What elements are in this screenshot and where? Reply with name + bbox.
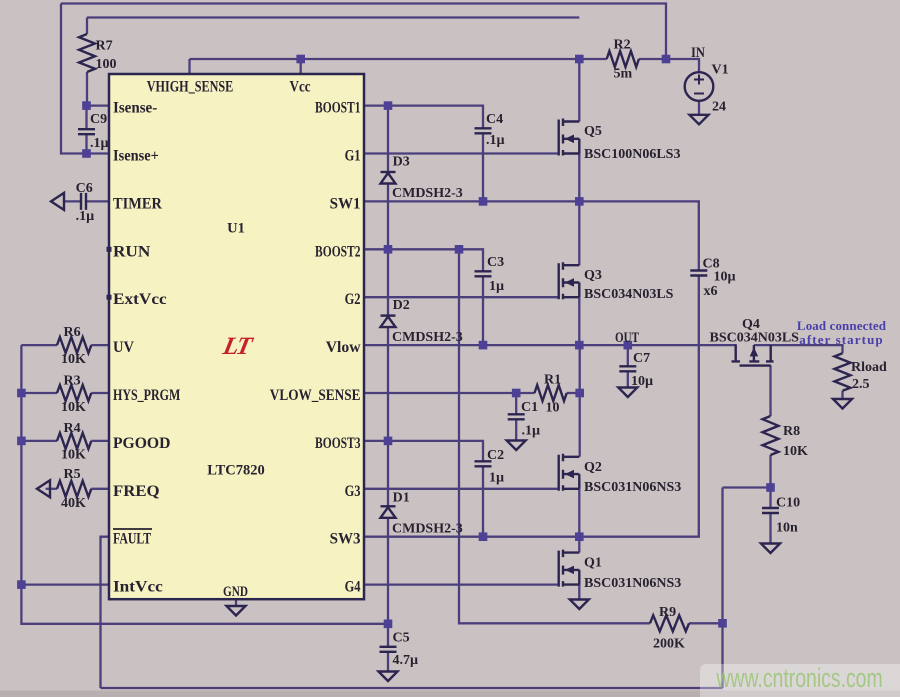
resistor R4 bbox=[57, 433, 91, 449]
wire Vcc rail riser bbox=[87, 16, 579, 18]
capacitor C4 bbox=[475, 128, 492, 133]
capacitor C6 bbox=[81, 193, 86, 210]
node BOOST3 junction bbox=[384, 437, 393, 446]
svg-text:BSC100N06LS3: BSC100N06LS3 bbox=[584, 147, 680, 162]
wire Vcc pin stub bbox=[300, 59, 302, 74]
wire R5 right lead bbox=[91, 488, 109, 490]
wire IN left drop to Isense+ bbox=[61, 4, 87, 154]
svg-text:after startup: after startup bbox=[799, 332, 883, 347]
wire SW1 to C8 bbox=[579, 201, 699, 270]
svg-text:2.5: 2.5 bbox=[852, 377, 870, 392]
svg-text:LTC7820: LTC7820 bbox=[207, 463, 264, 479]
svg-text:x6: x6 bbox=[704, 284, 718, 299]
capacitor C10 bbox=[762, 508, 779, 513]
transistor Q3 bbox=[559, 262, 580, 299]
node C4 SW1 junction bbox=[479, 197, 488, 206]
svg-text:R6: R6 bbox=[64, 325, 81, 340]
capacitor C8 bbox=[690, 271, 707, 276]
transistor Q1 bbox=[559, 550, 580, 587]
svg-text:UV: UV bbox=[113, 339, 134, 357]
wire Q2 drain drop bbox=[579, 345, 581, 457]
wire R9 right lead bbox=[689, 622, 723, 624]
wire left rail bbox=[20, 345, 22, 584]
wire Q2 source to SW3 bbox=[578, 489, 580, 537]
svg-text:G3: G3 bbox=[345, 482, 361, 500]
wire R7 top riser bbox=[86, 18, 88, 35]
wire FAULT drop bbox=[101, 537, 110, 688]
svg-text:C4: C4 bbox=[486, 112, 503, 127]
svg-text:D2: D2 bbox=[393, 298, 410, 313]
svg-text:CMDSH2-3: CMDSH2-3 bbox=[392, 330, 463, 345]
resistor R5 bbox=[57, 481, 91, 497]
svg-text:1µ: 1µ bbox=[489, 471, 504, 486]
wire Q5 source to SW1 bbox=[578, 154, 580, 202]
svg-text:BOOST3: BOOST3 bbox=[315, 435, 360, 452]
ground Rload bbox=[833, 399, 852, 409]
wire BOOST3 bbox=[364, 441, 483, 461]
wire VLOW_SENSE bbox=[364, 392, 516, 394]
wire Isense+ pin bbox=[87, 152, 110, 154]
wire R1 left lead bbox=[516, 392, 534, 394]
wire R4 left lead bbox=[21, 440, 57, 442]
resistor R8 bbox=[763, 416, 779, 455]
wire C10 bottom lead bbox=[769, 513, 771, 544]
node SW1 junction bbox=[575, 197, 584, 206]
wire G3 bbox=[364, 488, 559, 490]
svg-text:200K: 200K bbox=[653, 637, 685, 652]
capacitor C9 bbox=[78, 129, 95, 134]
svg-text:IntVcc: IntVcc bbox=[113, 577, 163, 595]
ground Q1 bbox=[570, 600, 589, 610]
svg-text:Rload: Rload bbox=[851, 360, 887, 375]
wire BOOST2 bbox=[364, 249, 483, 271]
svg-text:FREQ: FREQ bbox=[113, 481, 160, 500]
wire Q4 gate lead bbox=[769, 365, 771, 416]
resistor R7 bbox=[79, 34, 95, 72]
svg-text:Q2: Q2 bbox=[584, 460, 602, 475]
wire C7 bottom lead bbox=[627, 371, 629, 387]
wire Q4 source to Rload bbox=[754, 345, 843, 353]
wire C9 top lead bbox=[85, 106, 87, 130]
resistor R9 bbox=[650, 615, 689, 631]
wire Q3 source to OUT bbox=[578, 297, 580, 345]
wire R4 right lead bbox=[91, 440, 109, 442]
svg-text:IN: IN bbox=[691, 44, 705, 60]
node R3 rail junction bbox=[17, 389, 26, 398]
wire R6 right lead bbox=[91, 344, 109, 346]
svg-text:Q5: Q5 bbox=[584, 124, 602, 139]
svg-text:VLOW_SENSE: VLOW_SENSE bbox=[270, 387, 361, 404]
transistor Q5 bbox=[559, 119, 580, 156]
ground freq arrow bbox=[37, 480, 50, 497]
op-amp U1 LTC7820 IC body bbox=[109, 74, 364, 599]
svg-text:C2: C2 bbox=[487, 448, 504, 463]
wire D1 cathode lead bbox=[387, 441, 389, 506]
ground V1 bbox=[690, 115, 709, 125]
svg-text:BOOST1: BOOST1 bbox=[315, 100, 360, 117]
transistor Q4 bbox=[732, 344, 774, 365]
diode D2 bbox=[381, 314, 396, 316]
svg-text:.1µ: .1µ bbox=[90, 136, 109, 151]
svg-text:BOOST2: BOOST2 bbox=[315, 244, 360, 261]
wire R5 left lead bbox=[46, 488, 57, 490]
wire G4 bbox=[364, 583, 559, 585]
ground C1 bbox=[507, 441, 526, 451]
capacitor C1 bbox=[508, 414, 525, 419]
svg-text:4.7µ: 4.7µ bbox=[393, 653, 419, 668]
svg-text:10K: 10K bbox=[783, 444, 808, 459]
resistor Rload bbox=[835, 353, 851, 391]
wire R7 bottom lead bbox=[86, 72, 88, 106]
svg-text:Isense+: Isense+ bbox=[113, 147, 159, 165]
svg-text:G1: G1 bbox=[345, 147, 361, 165]
svg-text:Vcc: Vcc bbox=[289, 78, 311, 95]
svg-text:R1: R1 bbox=[544, 373, 561, 388]
svg-text:CMDSH2-3: CMDSH2-3 bbox=[392, 522, 463, 537]
wire IntVcc bbox=[21, 583, 109, 585]
node R4 rail junction bbox=[17, 437, 26, 446]
svg-text:.1µ: .1µ bbox=[76, 209, 95, 224]
svg-text:Q1: Q1 bbox=[584, 556, 602, 571]
wire R1 right lead bbox=[567, 392, 580, 394]
wire TIMER lead bbox=[86, 200, 109, 202]
node IN junction bbox=[662, 55, 671, 64]
wire D2 cathode lead bbox=[387, 249, 389, 315]
wire Q1 drain drop bbox=[578, 537, 580, 553]
svg-text:40K: 40K bbox=[61, 496, 86, 511]
svg-text:R3: R3 bbox=[64, 374, 81, 389]
wire C8 bottom to SW3 bbox=[364, 276, 699, 537]
node Vcc junction bbox=[296, 55, 305, 64]
svg-text:1µ: 1µ bbox=[489, 279, 504, 294]
wire BOOST2 to R9 drop bbox=[459, 249, 650, 623]
wire VHIGH_SENSE stub bbox=[188, 59, 190, 74]
svg-text:SW1: SW1 bbox=[330, 195, 361, 213]
wire G2 bbox=[364, 296, 559, 298]
svg-text:SW3: SW3 bbox=[330, 530, 361, 548]
node VLOW_SENSE junction bbox=[512, 389, 521, 398]
wire G1 bbox=[364, 152, 559, 154]
node Isense+ junction bbox=[82, 149, 91, 158]
svg-text:HYS_PRGM: HYS_PRGM bbox=[113, 386, 180, 404]
node R2 left junction bbox=[575, 55, 584, 64]
watermark background bbox=[700, 664, 900, 697]
svg-text:R4: R4 bbox=[64, 421, 81, 436]
wire Isense- pin bbox=[87, 104, 110, 106]
pin ExtVcc mark bbox=[107, 295, 112, 300]
svg-text:V1: V1 bbox=[712, 63, 729, 78]
wire C7 top lead bbox=[627, 345, 629, 366]
wire Rload to ground bbox=[841, 391, 843, 399]
wire D3 cathode lead bbox=[387, 106, 389, 172]
node Isense- junction bbox=[82, 101, 91, 110]
wire C1 top lead bbox=[515, 393, 517, 414]
wire Q5 drain drop bbox=[578, 59, 580, 122]
svg-text:U1: U1 bbox=[227, 221, 245, 237]
wire C2 bottom lead bbox=[482, 466, 484, 536]
svg-text:R2: R2 bbox=[614, 38, 631, 53]
wire IntVcc rail to C5 bbox=[21, 585, 388, 624]
svg-text:.1µ: .1µ bbox=[486, 133, 505, 148]
wire SW1 bbox=[364, 200, 579, 202]
svg-text:C10: C10 bbox=[776, 496, 800, 511]
wire C5 top lead bbox=[387, 624, 389, 647]
wire R3 right lead bbox=[91, 392, 109, 394]
wire IN net top rail bbox=[61, 4, 666, 60]
svg-text:D1: D1 bbox=[393, 491, 410, 506]
node C7 junction bbox=[624, 341, 633, 350]
node R8 C10 junction bbox=[766, 483, 775, 492]
svg-text:PGOOD: PGOOD bbox=[113, 435, 170, 452]
svg-text:R8: R8 bbox=[783, 424, 800, 439]
capacitor C3 bbox=[475, 271, 492, 276]
diode D3 bbox=[381, 171, 396, 173]
transistor Q2 bbox=[559, 454, 580, 491]
wire bottom rail bbox=[101, 687, 723, 689]
svg-text:Load connected: Load connected bbox=[797, 318, 887, 333]
node BOOST2 D junction bbox=[384, 245, 393, 254]
svg-text:.1µ: .1µ bbox=[522, 424, 541, 439]
capacitor C7 bbox=[619, 366, 636, 371]
svg-text:VHIGH_SENSE: VHIGH_SENSE bbox=[147, 78, 233, 96]
svg-text:BSC031N06NS3: BSC031N06NS3 bbox=[584, 576, 681, 591]
svg-text:G4: G4 bbox=[345, 578, 361, 596]
ground C10 bbox=[761, 544, 780, 554]
node BOOST2 R9 junction bbox=[455, 245, 464, 254]
svg-text:D3: D3 bbox=[393, 155, 410, 170]
node R9 junction bbox=[718, 619, 727, 628]
wire Q3 drain drop bbox=[578, 201, 580, 265]
wire R9 junction riser bbox=[721, 488, 723, 624]
svg-text:10K: 10K bbox=[61, 400, 86, 415]
voltage source V1 bbox=[685, 72, 714, 101]
wire R2 left lead bbox=[579, 58, 606, 60]
svg-text:BSC034N03LS: BSC034N03LS bbox=[710, 331, 800, 346]
wire Q1 source to ground bbox=[578, 585, 580, 600]
svg-text:TIMER: TIMER bbox=[113, 195, 163, 213]
svg-text:R5: R5 bbox=[64, 467, 81, 482]
svg-text:G2: G2 bbox=[345, 291, 361, 309]
bottom edge shading bbox=[0, 691, 900, 697]
wire C10 top lead bbox=[769, 488, 771, 509]
wire R9 down to bottom rail bbox=[721, 623, 723, 688]
node BOOST1 junction bbox=[384, 101, 393, 110]
svg-text:BSC034N03LS: BSC034N03LS bbox=[584, 287, 674, 302]
svg-text:R7: R7 bbox=[96, 39, 113, 54]
pin RUN mark bbox=[107, 247, 112, 252]
svg-text:CMDSH2-3: CMDSH2-3 bbox=[392, 186, 463, 201]
resistor R1 bbox=[535, 385, 567, 401]
wire D3 anode lead bbox=[387, 184, 389, 250]
svg-text:OUT: OUT bbox=[615, 328, 639, 345]
ground C5 bbox=[379, 672, 398, 682]
svg-text:100: 100 bbox=[96, 57, 117, 72]
svg-text:C7: C7 bbox=[633, 351, 650, 366]
svg-text:GND: GND bbox=[223, 582, 248, 599]
svg-text:Isense-: Isense- bbox=[113, 99, 157, 117]
svg-text:Vlow: Vlow bbox=[326, 339, 361, 356]
wire V1 to ground bbox=[698, 101, 700, 115]
wire C3 bottom lead bbox=[482, 276, 484, 345]
capacitor C2 bbox=[475, 461, 492, 466]
svg-text:ExtVcc: ExtVcc bbox=[113, 290, 167, 308]
svg-text:C3: C3 bbox=[487, 255, 504, 270]
wire C6 left lead bbox=[63, 200, 81, 202]
wire BOOST1 bbox=[364, 106, 483, 129]
svg-text:10µ: 10µ bbox=[631, 374, 653, 389]
wire UV R6 left bbox=[21, 344, 57, 346]
svg-text:FAULT: FAULT bbox=[113, 530, 152, 548]
svg-text:www.cntronics.com: www.cntronics.com bbox=[716, 663, 883, 693]
svg-text:BSC031N06NS3: BSC031N06NS3 bbox=[584, 480, 681, 495]
svg-text:C6: C6 bbox=[76, 181, 93, 196]
wire R8 bottom lead bbox=[769, 455, 771, 488]
svg-text:C1: C1 bbox=[521, 400, 538, 415]
node C3 Vlow junction bbox=[479, 341, 488, 350]
svg-text:10µ: 10µ bbox=[714, 270, 736, 285]
wire IN to V1 bbox=[666, 59, 699, 72]
svg-text:10K: 10K bbox=[61, 352, 86, 367]
svg-text:5m: 5m bbox=[614, 67, 633, 82]
ground C7 bbox=[618, 388, 637, 398]
node IntVcc rail junction bbox=[17, 580, 26, 589]
svg-text:C5: C5 bbox=[393, 631, 410, 646]
svg-text:10n: 10n bbox=[776, 521, 798, 536]
wire C9 bottom lead bbox=[85, 134, 87, 153]
resistor R3 bbox=[57, 385, 91, 401]
wire R2 right lead bbox=[639, 58, 666, 60]
resistor R6 bbox=[57, 337, 91, 353]
pin label FAULT overline bbox=[113, 528, 152, 530]
svg-text:R9: R9 bbox=[659, 605, 676, 620]
node C5 junction bbox=[384, 620, 393, 629]
wire C5 bottom lead bbox=[387, 652, 389, 672]
wire GND pin stub bbox=[235, 599, 237, 606]
node Vlow Q3 junction bbox=[575, 341, 584, 350]
node R1 right junction bbox=[575, 389, 584, 398]
wire Vlow OUT line bbox=[364, 344, 736, 346]
wire D1 anode lead bbox=[387, 518, 389, 624]
ground timer arrow bbox=[51, 193, 64, 210]
wire R3 left lead bbox=[21, 392, 57, 394]
svg-text:Q3: Q3 bbox=[584, 268, 602, 283]
wire to R8 C10 junction bbox=[723, 486, 771, 488]
resistor R2 bbox=[607, 51, 639, 67]
svg-text:24: 24 bbox=[712, 100, 726, 115]
svg-text:10K: 10K bbox=[61, 448, 86, 463]
svg-text:C9: C9 bbox=[90, 112, 107, 127]
node SW3 junction bbox=[575, 532, 584, 541]
node C2 SW3 junction bbox=[479, 532, 488, 541]
svg-text:10: 10 bbox=[546, 401, 560, 416]
wire C1 bottom lead bbox=[515, 419, 517, 440]
wire D2 anode lead bbox=[387, 327, 389, 441]
wire Vcc top rail bbox=[190, 58, 580, 60]
diode D1 bbox=[381, 505, 396, 507]
ground GND pin bbox=[227, 606, 246, 616]
capacitor C5 bbox=[380, 647, 397, 652]
svg-text:RUN: RUN bbox=[113, 242, 150, 260]
wire C4 bottom lead bbox=[482, 133, 484, 201]
